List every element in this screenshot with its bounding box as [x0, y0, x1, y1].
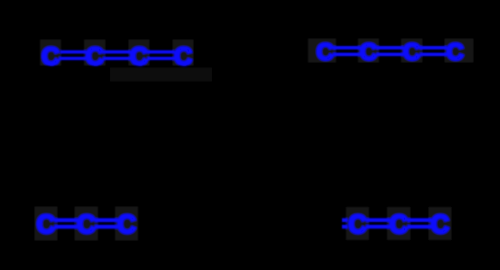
svg-text:C: C	[41, 43, 59, 71]
bond C1=C2	[366, 220, 390, 227]
bond C3=C4	[147, 52, 175, 59]
svg-text:C: C	[389, 211, 407, 239]
svg-text:C: C	[431, 211, 449, 239]
svg-text:C: C	[360, 39, 377, 66]
svg-text:C: C	[117, 209, 136, 239]
bond C3=C4	[420, 48, 447, 55]
bond C1=C2	[59, 52, 87, 59]
label box C3	[429, 207, 452, 240]
svg-text:C: C	[403, 39, 420, 66]
label box C2	[75, 207, 98, 241]
hidden caption	[110, 68, 212, 82]
label box C2	[358, 39, 379, 63]
label box C3	[401, 39, 422, 63]
label box C2	[84, 40, 105, 66]
svg-text:C: C	[316, 39, 333, 66]
bond stub left of C1	[342, 220, 348, 227]
label box C1	[346, 207, 369, 240]
label box C1	[34, 207, 57, 241]
bond C2=C3	[407, 220, 431, 227]
bond C2=C3	[103, 52, 131, 59]
label box C2	[387, 207, 410, 240]
svg-text:C: C	[174, 43, 192, 71]
label box C1	[40, 40, 61, 66]
bond C2=C3	[95, 220, 119, 227]
svg-text:C: C	[77, 209, 96, 239]
bond C2=C3	[376, 48, 403, 55]
label box C3	[128, 40, 149, 66]
svg-text:C: C	[86, 43, 104, 71]
label box C3	[115, 207, 138, 241]
bond C1=C2	[333, 48, 360, 55]
svg-text:C: C	[446, 39, 463, 66]
svg-text:C: C	[348, 211, 366, 239]
label box C1 (H2C hidden)	[308, 39, 336, 63]
label box C4 (CH2 hidden)	[445, 39, 474, 63]
svg-text:C: C	[37, 209, 56, 239]
label box C4	[173, 40, 194, 66]
svg-text:C: C	[130, 43, 148, 71]
bond C1=C2	[54, 220, 78, 227]
